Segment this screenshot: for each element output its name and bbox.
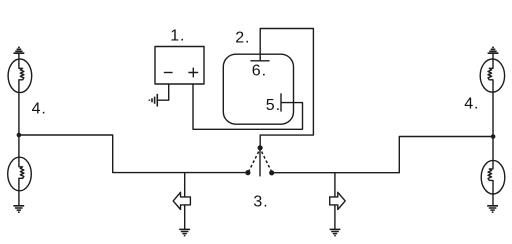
svg-text:3.: 3. — [253, 194, 268, 211]
svg-text:1.: 1. — [170, 28, 185, 45]
svg-text:2.: 2. — [235, 30, 250, 47]
svg-text:6.: 6. — [252, 63, 267, 80]
svg-text:4.: 4. — [32, 100, 47, 117]
svg-text:5.: 5. — [266, 97, 281, 114]
svg-text:4.: 4. — [464, 96, 479, 113]
